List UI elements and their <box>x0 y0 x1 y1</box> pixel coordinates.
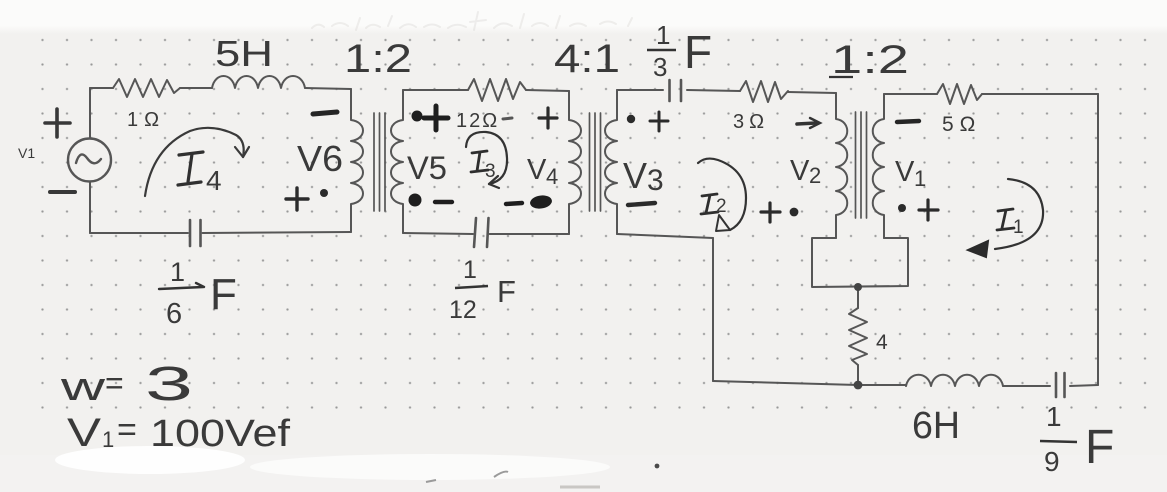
svg-text:V: V <box>67 411 101 455</box>
wire loop4 top left <box>884 93 937 95</box>
polarity dot V3 top <box>627 115 635 123</box>
svg-text:F: F <box>684 26 712 78</box>
svg-text:V: V <box>895 156 915 188</box>
mesh current I1 arrowhead <box>968 241 988 257</box>
plus V4 top <box>539 108 557 128</box>
svg-text:F: F <box>497 274 516 309</box>
svg-text:1: 1 <box>656 20 670 50</box>
minus V4 bottom <box>506 203 522 204</box>
svg-text:V: V <box>790 155 810 187</box>
wire 12ohm to T2 <box>526 90 569 91</box>
transformer T1 secondary winding <box>391 90 403 233</box>
transformer T3 secondary winding <box>873 94 884 238</box>
junction node dot bottom rail <box>854 381 863 390</box>
transformer T1 primary winding <box>351 89 363 232</box>
mesh current I3 arrow <box>466 132 507 184</box>
svg-text:=: = <box>117 411 137 449</box>
wire right edge vertical <box>1097 94 1099 385</box>
transformer T2 primary winding <box>569 91 581 234</box>
svg-text:1:2: 1:2 <box>831 38 909 82</box>
svg-text:V6: V6 <box>297 138 343 179</box>
wire 5ohm to right edge <box>982 93 1098 95</box>
wire loop3 bottom <box>617 234 713 238</box>
svg-text:4: 4 <box>546 164 558 189</box>
svg-text:6: 6 <box>166 298 182 330</box>
svg-text:F: F <box>210 270 237 319</box>
polarity dot V2 bottom <box>790 208 799 217</box>
svg-text:V5: V5 <box>407 150 447 186</box>
mesh current I1 arrow <box>995 179 1043 249</box>
svg-text:2: 2 <box>809 163 821 188</box>
dash after 12ohm <box>503 118 512 119</box>
wire cap to 3ohm <box>687 90 740 91</box>
wire loop1 bottom left <box>90 232 188 234</box>
plus V1 bottom <box>919 200 938 220</box>
svg-text:1:2: 1:2 <box>344 37 412 81</box>
equation w = 3 <box>59 358 193 411</box>
svg-text:2: 2 <box>716 196 727 217</box>
minus below V3 <box>628 203 655 205</box>
wire loop1 bottom right <box>203 232 352 233</box>
transformer T3 primary winding <box>836 93 847 238</box>
arrow right of 3ohm <box>797 123 816 124</box>
inductor 6H <box>906 375 1003 386</box>
capacitor 1/12F <box>474 218 489 247</box>
capacitor 1/3F <box>670 80 682 101</box>
wire 3ohm to T3 <box>788 92 836 93</box>
transformer T2 core <box>590 113 601 211</box>
svg-text:12: 12 <box>449 296 477 324</box>
wire resistor4 to bottom rail <box>857 365 859 385</box>
label 1/3 F <box>647 20 712 82</box>
svg-text:=: = <box>105 365 124 401</box>
plus V2 bottom <box>761 203 780 222</box>
svg-text:V: V <box>623 155 647 196</box>
minus V1 top <box>897 121 919 122</box>
transformer T1 core <box>374 113 385 211</box>
wire loop3 top left <box>617 89 663 91</box>
mesh current I4 arrow <box>145 128 244 196</box>
wire cup node to resistor 4 <box>857 287 859 308</box>
label 1/6 F <box>159 257 237 330</box>
wire capacitor to 6H <box>1003 385 1050 387</box>
small smudge marks <box>426 472 508 482</box>
wire loop2 bottom right <box>490 233 570 235</box>
voltage source V1 <box>68 139 111 182</box>
svg-text:6H: 6H <box>912 405 960 447</box>
minus of source V1 <box>50 190 75 194</box>
transformer T3 core <box>856 112 867 218</box>
wire loop3 down to bottom rail <box>712 238 714 381</box>
svg-text:3: 3 <box>145 358 193 411</box>
minus above V6 <box>313 112 337 114</box>
svg-text:F: F <box>1085 421 1114 474</box>
svg-text:1: 1 <box>914 166 926 191</box>
transformer T2 secondary winding <box>605 90 617 234</box>
plus of source V1 <box>45 109 70 137</box>
capacitor 1/6F <box>190 220 201 246</box>
svg-text:4:1: 4:1 <box>554 37 620 81</box>
wire right bottom to capacitor <box>1070 385 1098 386</box>
svg-text:1: 1 <box>1046 401 1062 432</box>
polarity dot V1 bottom <box>898 204 906 212</box>
svg-text:1Ω: 1Ω <box>127 109 165 131</box>
wire loop1 left vertical bottom <box>89 182 91 233</box>
svg-text:3: 3 <box>653 52 667 82</box>
mesh current I3 label <box>471 151 496 182</box>
resistor R 4ohm vertical <box>849 308 867 365</box>
svg-text:1: 1 <box>1013 217 1024 238</box>
svg-text:V: V <box>527 154 547 186</box>
label 1:2 transformer T3 <box>829 38 909 82</box>
wire bottom rail left <box>713 381 858 385</box>
svg-text:9: 9 <box>1044 446 1060 477</box>
resistor R 3ohm <box>740 81 788 102</box>
polarity dot V5 top <box>412 111 423 122</box>
minus V5 bottom <box>435 200 452 204</box>
label V2 <box>790 155 821 188</box>
svg-text:1: 1 <box>463 256 477 284</box>
wire 6H to junction <box>858 384 906 386</box>
cup connecting T3 winding bottoms <box>812 238 908 287</box>
wire between R1 and 5H <box>180 87 212 89</box>
mesh current I1 label <box>997 209 1024 238</box>
polarity blob V4 bottom <box>529 194 553 210</box>
svg-text:12Ω: 12Ω <box>456 110 499 132</box>
svg-text:3: 3 <box>647 164 664 197</box>
svg-text:5H: 5H <box>215 33 273 74</box>
mesh current I4 label <box>178 152 222 196</box>
wire loop2 bottom left <box>403 233 473 234</box>
whiteout streaks bottom <box>55 446 245 474</box>
mesh current I2 arrow <box>698 159 746 230</box>
svg-text:V1: V1 <box>18 145 35 161</box>
wire 5H to transformer T1 <box>305 88 351 89</box>
mesh current I2 label <box>701 194 727 217</box>
faint ghost marks top band <box>312 12 632 30</box>
label 1/12 F <box>449 256 516 324</box>
polarity dot V6 <box>320 189 328 197</box>
equation V1 = 100Vef <box>67 411 291 455</box>
resistor R 5ohm <box>937 84 982 104</box>
junction node dot on cup <box>854 283 862 291</box>
svg-text:w: w <box>59 365 105 409</box>
resistor R 1ohm <box>113 79 180 97</box>
svg-text:5Ω: 5Ω <box>942 113 981 136</box>
wire loop1 left vertical top <box>89 88 91 138</box>
label V4 <box>527 154 558 189</box>
label 1/9 F <box>1040 401 1114 477</box>
svg-text:4: 4 <box>206 165 222 196</box>
resistor R 12ohm <box>468 79 526 101</box>
svg-text:3Ω: 3Ω <box>733 111 769 133</box>
label V1 right <box>895 156 926 191</box>
plus V5 top <box>424 106 448 130</box>
plus below V6 <box>286 188 308 210</box>
polarity dot V5 bottom <box>409 194 422 207</box>
svg-text:1: 1 <box>170 257 185 287</box>
wire loop2 top with stub <box>403 89 468 91</box>
wire loop1 top left <box>90 87 113 89</box>
plus V3 top <box>650 112 668 131</box>
svg-text:4: 4 <box>876 331 888 354</box>
capacitor 1/9F <box>1056 373 1065 397</box>
inductor 5H <box>212 76 305 88</box>
